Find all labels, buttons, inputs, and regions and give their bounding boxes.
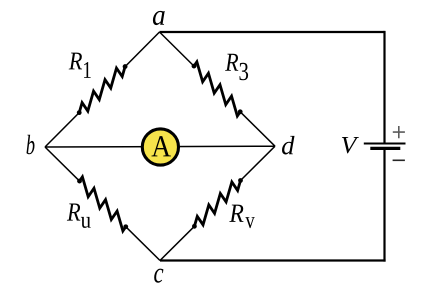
wire bottom-right corner to c: [160, 259, 386, 261]
label Ru: [67, 203, 80, 220]
battery V positive plate (long thin): [364, 143, 406, 145]
node d label: [282, 136, 295, 155]
node a label: [153, 11, 165, 25]
battery V negative plate (short thick): [370, 147, 400, 150]
wire a to top-right corner: [160, 31, 385, 33]
wire right side lower (battery - plate to corner): [383, 148, 385, 261]
resistor R1 (arm b-a): [45, 32, 160, 147]
ammeter circle: [142, 129, 178, 165]
wire b-d (galvanometer branch): [45, 145, 275, 148]
resistor R3 (arm a-d): [160, 32, 276, 146]
battery plus sign: [393, 126, 405, 138]
label R3: [225, 54, 238, 71]
resistor Ru (arm b-c): [45, 147, 160, 261]
node c label: [154, 269, 163, 283]
battery label V: [342, 137, 359, 153]
resistor Rv (arm c-d): [160, 146, 275, 260]
ammeter label A: [151, 136, 170, 156]
battery minus sign: [393, 159, 405, 161]
wire right side upper (to battery + plate): [383, 31, 385, 144]
node b label: [27, 135, 35, 155]
label Rv: [229, 205, 243, 222]
label R1: [69, 53, 82, 70]
